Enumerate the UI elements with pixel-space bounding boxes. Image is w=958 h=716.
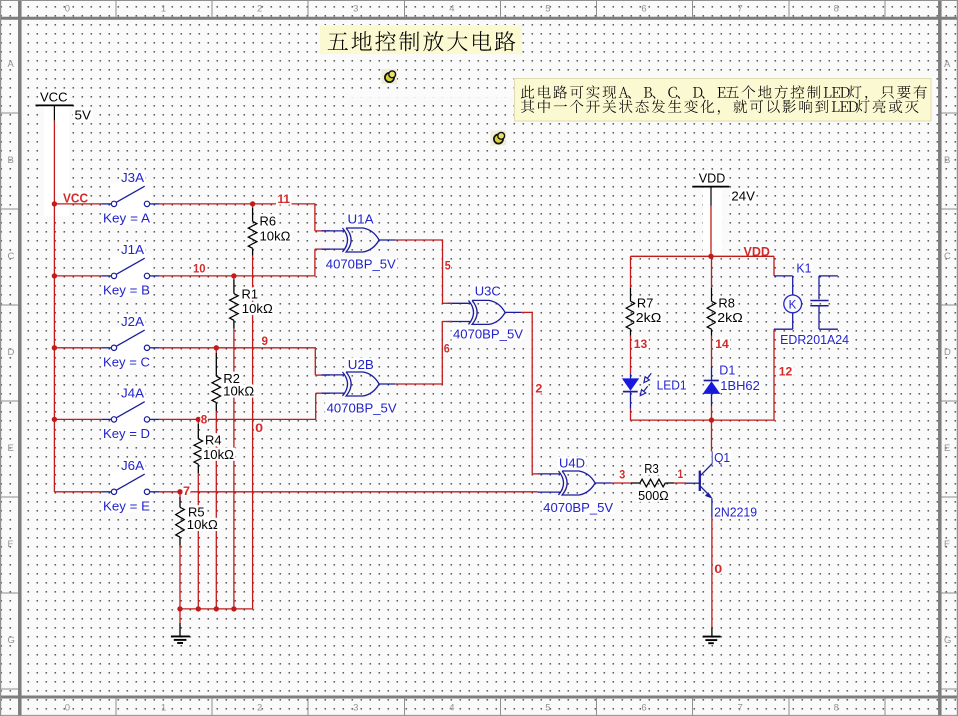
svg-text:K1: K1 [796, 261, 811, 275]
svg-text:A: A [944, 59, 951, 70]
label LED1 [655, 378, 688, 391]
svg-text:9: 9 [262, 336, 269, 348]
svg-text:10kΩ: 10kΩ [187, 518, 218, 532]
svg-text:D: D [8, 347, 15, 358]
svg-text:R7: R7 [637, 297, 654, 311]
wire ground bus bottom [180, 608, 253, 610]
resistor R7 2kΩ [630, 256, 632, 288]
resistor R6 10k [252, 204, 254, 208]
svg-text:R8: R8 [718, 297, 735, 311]
svg-text:0: 0 [65, 4, 70, 15]
resistor R5 10k [179, 492, 181, 497]
wire net 9 (J2A to U2B top input) [159, 347, 315, 349]
label K1 [795, 261, 813, 274]
wire net 6 (U2B out to U3C bottom input) [396, 383, 443, 385]
resistor R1 10k [233, 276, 235, 279]
svg-text:4070BP_5V: 4070BP_5V [453, 328, 524, 342]
svg-text:7: 7 [738, 4, 743, 15]
relay K1 EDR201A24 coil [773, 256, 775, 276]
svg-text:Key = C: Key = C [103, 356, 150, 370]
svg-text:6: 6 [641, 702, 646, 713]
svg-text:13: 13 [634, 339, 648, 351]
net label 12 [777, 365, 794, 377]
svg-text:10: 10 [193, 264, 206, 276]
redraw artifact white band [350, 90, 515, 98]
svg-text:10kΩ: 10kΩ [203, 448, 234, 462]
svg-text:U3C: U3C [475, 285, 501, 299]
svg-text:8: 8 [201, 414, 208, 426]
svg-text:Key = A: Key = A [103, 212, 151, 226]
svg-text:8: 8 [834, 4, 839, 15]
svg-text:0: 0 [255, 423, 263, 435]
junction node VDD [708, 254, 713, 259]
wire net 13 (R7 to LED1) [630, 336, 632, 374]
switch J6A (Key = E) [111, 471, 153, 502]
wire R5 bottom to ground bus [179, 546, 181, 609]
wire net 8 (J4A to U2B bottom input) [159, 418, 315, 420]
svg-text:G: G [8, 635, 15, 646]
svg-text:3: 3 [353, 702, 358, 713]
transistor Q1 2N2219 [686, 482, 699, 484]
svg-text:E: E [944, 443, 950, 454]
junction node 9/R2 [214, 345, 219, 350]
junction node 8/R4 [196, 417, 201, 422]
svg-text:5: 5 [545, 702, 550, 713]
svg-text:1: 1 [161, 702, 166, 713]
net label 5 [444, 260, 451, 270]
svg-text:12: 12 [779, 367, 793, 379]
switch J3A (Key = A) [111, 183, 153, 214]
svg-text:6: 6 [444, 344, 450, 356]
net label 13 [632, 337, 649, 349]
svg-text:Q1: Q1 [714, 451, 730, 465]
wire node 12 bus horizontal [631, 419, 775, 421]
svg-text:E: E [8, 443, 14, 454]
net label 11 [276, 192, 292, 204]
net label VDD (red) [742, 245, 772, 258]
net label 2 [535, 383, 543, 393]
svg-text:K: K [789, 299, 797, 311]
svg-text:D1: D1 [719, 364, 735, 378]
junction node 7/R5 [177, 489, 182, 494]
svg-text:3: 3 [619, 469, 625, 481]
svg-text:C: C [944, 251, 951, 262]
net label 10 [192, 262, 208, 274]
LED LED1 [630, 374, 632, 378]
svg-text:2: 2 [257, 702, 262, 713]
svg-text:U1A: U1A [348, 212, 375, 226]
svg-text:J3A: J3A [121, 171, 145, 185]
svg-text:5: 5 [445, 261, 452, 273]
svg-text:Key = B: Key = B [103, 284, 150, 298]
svg-text:7: 7 [183, 486, 190, 498]
svg-text:J6A: J6A [121, 459, 145, 473]
resistor R3 500Ω [631, 482, 640, 484]
svg-text:4070BP_5V: 4070BP_5V [326, 258, 397, 272]
wire VCC bus vertical [53, 121, 55, 492]
ground (left) [179, 609, 181, 623]
switch J1A (Key = B) [111, 255, 153, 286]
net label 7 [183, 485, 191, 495]
svg-text:VDD: VDD [744, 245, 771, 259]
wire Q1 emitter to ground (net 0) [711, 517, 713, 627]
svg-text:B: B [944, 155, 950, 166]
wire Q1 collector to node 12 bus [711, 420, 713, 451]
svg-text:11: 11 [278, 194, 291, 206]
label EDR201A24 [779, 333, 851, 346]
switch J2A (Key = C) [111, 327, 153, 358]
svg-text:J1A: J1A [121, 243, 145, 257]
op XOR gate U2B [322, 374, 346, 376]
junction node 11/R6 [250, 201, 255, 206]
net label 8 [200, 414, 208, 424]
svg-text:F: F [944, 539, 950, 550]
svg-text:C: C [8, 251, 15, 262]
svg-text:R1: R1 [242, 288, 259, 302]
net label 0 (left) [255, 423, 264, 433]
svg-text:U4D: U4D [559, 457, 585, 471]
pin icon 2 [491, 131, 507, 146]
svg-text:10kΩ: 10kΩ [223, 385, 254, 399]
svg-text:1BH62: 1BH62 [720, 379, 760, 393]
svg-text:10kΩ: 10kΩ [242, 302, 273, 316]
wire R2 bottom to ground bus [215, 411, 217, 609]
junction node 10/R1 [231, 273, 236, 278]
ground (right) [711, 627, 713, 636]
wire VDD rail horizontal [631, 255, 775, 257]
wire R4 bottom to ground bus [197, 473, 199, 609]
net label 9 [260, 335, 270, 347]
op XOR gate U1A [322, 230, 346, 232]
net label 6 [443, 343, 450, 353]
svg-text:14: 14 [715, 339, 729, 351]
svg-text:VCC: VCC [63, 191, 88, 205]
svg-text:2: 2 [535, 384, 542, 396]
svg-text:3: 3 [353, 4, 358, 15]
wire net 1 (R3 to Q1 base) [674, 482, 686, 484]
title text 五地控制放大电路 [320, 25, 522, 54]
svg-text:J2A: J2A [121, 315, 145, 329]
svg-text:EDR201A24: EDR201A24 [780, 333, 849, 347]
svg-text:4070BP_5V: 4070BP_5V [543, 501, 614, 515]
note textbox (yellow) [515, 79, 932, 122]
wire LED1 to bus [630, 409, 632, 421]
junction dots on VCC bus [52, 201, 57, 206]
svg-text:VCC: VCC [40, 89, 68, 104]
label D1 [718, 363, 737, 376]
svg-text:B: B [8, 155, 14, 166]
svg-text:1: 1 [161, 4, 166, 15]
svg-text:8: 8 [834, 702, 839, 713]
svg-text:G: G [944, 635, 951, 646]
svg-text:Key = E: Key = E [103, 500, 150, 514]
svg-text:500Ω: 500Ω [638, 489, 669, 503]
wire net 3 (U4D out to R3) [612, 482, 631, 484]
wire net 12 vertical (K1 to bus) [773, 329, 775, 421]
op XOR gate U3C [448, 302, 472, 304]
LED1 emission arrows [647, 373, 651, 378]
wire net 7 (J6A to U4D bottom input) [159, 491, 537, 493]
svg-text:4: 4 [449, 4, 454, 15]
svg-text:D: D [944, 347, 951, 358]
svg-text:Key = D: Key = D [103, 427, 150, 441]
resistor R4 10k [197, 419, 199, 424]
pin icon 1 [382, 69, 398, 84]
wire net 14 (R8 to D1) [711, 336, 713, 367]
wire D1 to bus [711, 406, 713, 420]
worksheet border frame [0, 17, 958, 20]
switch J4A (Key = D) [111, 399, 153, 430]
net label 1 [677, 469, 684, 479]
net label 0 (right) [714, 564, 723, 574]
svg-text:5V: 5V [75, 107, 92, 122]
wire net 5 (U1A out to U3C top input) [396, 239, 443, 241]
svg-text:2kΩ: 2kΩ [717, 311, 743, 325]
svg-text:2kΩ: 2kΩ [636, 311, 662, 325]
net label 14 [714, 337, 731, 349]
ruler tick marks [115, 0, 117, 17]
diode D1 1BH62 [711, 367, 713, 381]
svg-text:2N2219: 2N2219 [714, 505, 757, 519]
svg-text:R6: R6 [260, 214, 277, 228]
svg-text:10kΩ: 10kΩ [260, 230, 291, 244]
svg-text:LED1: LED1 [657, 379, 687, 393]
resistor R8 2kΩ [711, 256, 713, 288]
wire VDD vertical [710, 206, 712, 256]
svg-text:R3: R3 [644, 462, 659, 476]
wire R1 bottom to ground bus [233, 329, 235, 609]
power symbol VCC 5V [44, 106, 69, 216]
relay K1 contact [819, 275, 838, 277]
op XOR gate U4D [538, 473, 562, 475]
net label VCC (red) [62, 191, 90, 204]
svg-text:0: 0 [714, 564, 722, 576]
junction node 12 bus [709, 417, 714, 422]
svg-text:6: 6 [641, 4, 646, 15]
svg-text:24V: 24V [731, 189, 755, 204]
power symbol VDD 24V [703, 188, 722, 255]
svg-text:0: 0 [65, 702, 70, 713]
svg-text:2: 2 [257, 4, 262, 15]
svg-text:7: 7 [738, 702, 743, 713]
svg-text:U2B: U2B [348, 358, 374, 372]
resistor R2 10k [215, 348, 217, 353]
junction dots ground bus [177, 606, 182, 611]
net label 3 [619, 469, 626, 479]
svg-text:R4: R4 [205, 434, 222, 448]
svg-text:5: 5 [545, 4, 550, 15]
svg-text:F: F [8, 539, 14, 550]
wire net 10 (J1A to U1A bottom input) [159, 275, 315, 277]
svg-text:4: 4 [449, 702, 454, 713]
wire net 2 (U3C out to U4D top input) [522, 311, 533, 313]
svg-text:A: A [8, 59, 15, 70]
wire net 0 vertical (R6 bottom to ground bus) [252, 256, 254, 609]
svg-text:VDD: VDD [699, 170, 726, 185]
wire net 11 (J3A to U1A top input) [159, 203, 315, 205]
svg-text:4070BP_5V: 4070BP_5V [327, 402, 398, 416]
svg-text:1: 1 [678, 469, 684, 481]
svg-text:J4A: J4A [121, 387, 145, 401]
